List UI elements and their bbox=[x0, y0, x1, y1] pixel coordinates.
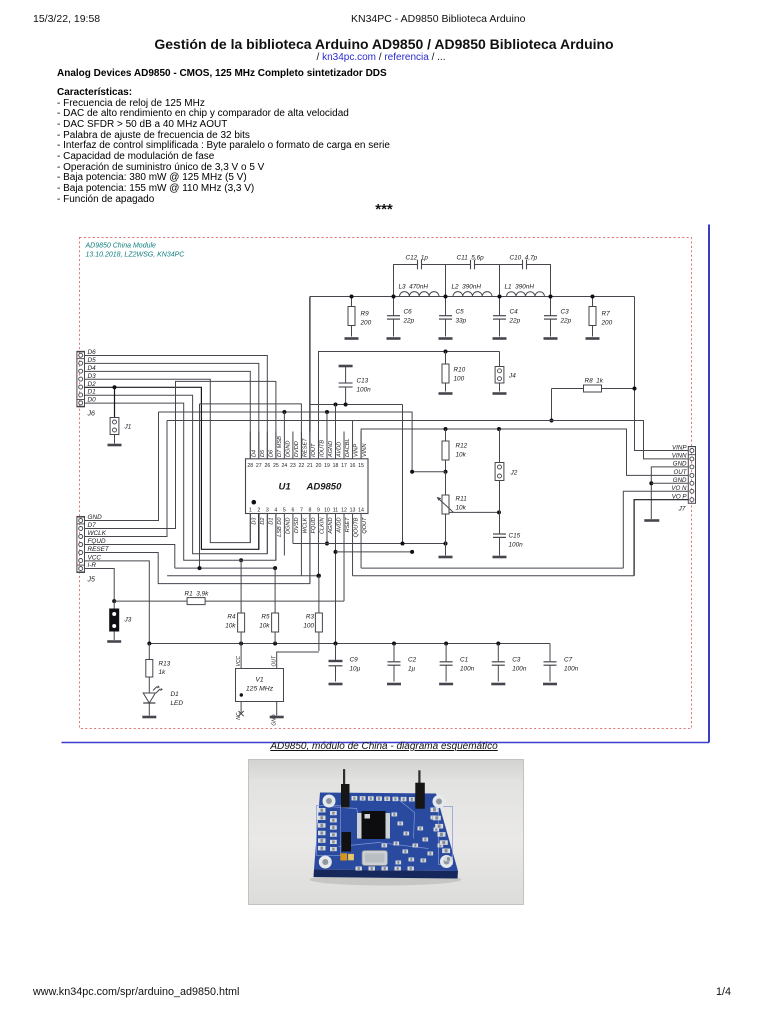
ground below C9 bbox=[329, 683, 343, 686]
connector J6 bbox=[77, 351, 85, 407]
resistor R7 bbox=[592, 297, 594, 307]
svg-text:FQUD: FQUD bbox=[311, 518, 317, 534]
svg-text:RESET: RESET bbox=[302, 438, 308, 457]
op-amp U1 AD9850 body bbox=[246, 459, 369, 514]
svg-text:I-R: I-R bbox=[88, 562, 97, 569]
inductor L2 bbox=[453, 292, 492, 297]
crystal oscillator bbox=[362, 851, 388, 866]
svg-text:1k: 1k bbox=[159, 669, 167, 676]
svg-text:24: 24 bbox=[281, 463, 287, 469]
svg-text:100n: 100n bbox=[564, 666, 579, 673]
svg-text:J3: J3 bbox=[124, 617, 132, 624]
svg-text:27: 27 bbox=[256, 463, 262, 469]
potentiometer R11 bbox=[442, 495, 449, 514]
wire D1 bbox=[85, 395, 268, 554]
svg-text:R1 3,9k: R1 3,9k bbox=[185, 591, 210, 598]
svg-text:R10: R10 bbox=[454, 367, 466, 374]
svg-text:GND: GND bbox=[88, 514, 103, 521]
capacitor C2 bbox=[393, 644, 395, 662]
svg-text:13: 13 bbox=[350, 508, 356, 514]
svg-text:R3: R3 bbox=[306, 614, 315, 621]
svg-text:10k: 10k bbox=[456, 452, 467, 459]
svg-text:R8 1k: R8 1k bbox=[585, 378, 604, 385]
svg-text:L3 470nH: L3 470nH bbox=[399, 284, 429, 291]
svg-text:10: 10 bbox=[324, 508, 330, 514]
svg-text:100: 100 bbox=[303, 623, 314, 630]
svg-text:10k: 10k bbox=[225, 623, 236, 630]
orange capacitors bbox=[340, 853, 347, 860]
ground below C1 bbox=[439, 683, 453, 686]
svg-text:D5: D5 bbox=[88, 357, 97, 364]
svg-text:R12: R12 bbox=[456, 443, 468, 450]
wire VO N right segment (QOUT) bbox=[361, 567, 623, 569]
wire RESET bbox=[85, 514, 310, 584]
svg-text:D7 MSB: D7 MSB bbox=[277, 436, 283, 457]
svg-text:D7: D7 bbox=[88, 522, 97, 529]
svg-text:9: 9 bbox=[317, 508, 320, 514]
svg-text:VINN: VINN bbox=[672, 453, 687, 460]
capacitor C3 (bypass) bbox=[497, 644, 499, 662]
left pin header base bbox=[341, 784, 350, 808]
capacitor C5 bbox=[445, 297, 447, 316]
svg-text:D1: D1 bbox=[268, 518, 274, 525]
resistor R13 bbox=[148, 644, 150, 660]
wire D6 bbox=[85, 356, 268, 459]
svg-text:10k: 10k bbox=[259, 623, 270, 630]
red dashed schematic border bbox=[80, 238, 692, 729]
wire VO P left segment bbox=[167, 575, 319, 577]
svg-text:5: 5 bbox=[283, 508, 286, 514]
ground for J7 bbox=[644, 519, 659, 522]
svg-text:100n: 100n bbox=[512, 666, 527, 673]
capacitor C9 (polarized) bbox=[335, 644, 337, 661]
svg-text:21: 21 bbox=[307, 463, 313, 469]
svg-text:100: 100 bbox=[454, 376, 465, 383]
ground below LED bbox=[142, 716, 156, 719]
ground below R11 column bbox=[445, 544, 447, 556]
rail junction dots bbox=[350, 295, 354, 299]
svg-text:LSB D0: LSB D0 bbox=[277, 517, 283, 537]
resistor R8 bbox=[552, 388, 584, 390]
svg-text:RESET: RESET bbox=[88, 546, 110, 553]
capacitor C7 bbox=[549, 644, 551, 662]
wire W1 y404 bbox=[310, 404, 403, 406]
svg-text:19: 19 bbox=[324, 463, 330, 469]
SMD pads pattern bbox=[318, 808, 326, 812]
wire VO N to J7 bbox=[623, 491, 688, 568]
wire GND J5 bbox=[85, 412, 159, 521]
wire WCLK bbox=[85, 421, 168, 537]
inductor L3 bbox=[400, 292, 440, 297]
wire J7 GND pin3 bbox=[651, 467, 688, 519]
svg-text:7: 7 bbox=[300, 508, 303, 514]
capacitor C12 bbox=[394, 265, 418, 297]
subtitle bold bbox=[57, 68, 387, 79]
svg-text:1: 1 bbox=[249, 508, 252, 514]
wire: IOUTB net y351 bbox=[319, 352, 500, 459]
svg-text:18: 18 bbox=[333, 463, 339, 469]
V1 GND pin bbox=[276, 702, 278, 716]
LED D1 bbox=[148, 677, 150, 693]
ground below C6 bbox=[387, 337, 401, 340]
wire W2 y412 bbox=[159, 412, 413, 472]
svg-text:C11 5,6p: C11 5,6p bbox=[457, 255, 485, 262]
svg-text:100n: 100n bbox=[460, 666, 475, 673]
V1 NC pin with X bbox=[240, 702, 242, 713]
ground below C2 bbox=[387, 683, 401, 686]
svg-text:22p: 22p bbox=[560, 318, 572, 325]
svg-text:L1 390nH: L1 390nH bbox=[505, 284, 535, 291]
svg-text:AVDD: AVDD bbox=[337, 442, 343, 458]
wire I-R bbox=[85, 569, 115, 602]
svg-text:DVSD: DVSD bbox=[294, 518, 300, 534]
svg-text:J5: J5 bbox=[87, 577, 96, 584]
ground below C5 bbox=[439, 337, 453, 340]
supply rail y643 bbox=[149, 643, 550, 645]
svg-text:D5: D5 bbox=[260, 449, 266, 457]
svg-text:D3: D3 bbox=[88, 373, 97, 380]
wire VO N left segment (FQUD wrap) bbox=[175, 567, 275, 569]
blue page frame bbox=[708, 225, 710, 743]
wire FQUD bbox=[85, 545, 175, 569]
svg-text:C13: C13 bbox=[357, 378, 369, 385]
ground below C4 bbox=[493, 337, 507, 340]
connector J5 bbox=[77, 517, 85, 573]
svg-text:AGND: AGND bbox=[328, 518, 334, 535]
svg-text:D1: D1 bbox=[88, 389, 97, 396]
svg-text:QOUTB: QOUTB bbox=[354, 517, 360, 537]
VO N via y403 row to pin22 bbox=[199, 404, 201, 568]
svg-text:U1: U1 bbox=[279, 482, 291, 493]
svg-text:D6: D6 bbox=[268, 449, 274, 457]
wire D0 bbox=[85, 403, 276, 560]
svg-text:DVDD: DVDD bbox=[294, 441, 300, 457]
wire W1 down right of U1 bbox=[402, 405, 404, 544]
svg-text:R5: R5 bbox=[261, 614, 270, 621]
connector J7 bbox=[688, 447, 695, 504]
svg-text:2: 2 bbox=[257, 508, 260, 514]
svg-text:VINP: VINP bbox=[672, 444, 687, 451]
corner screw holes bbox=[323, 795, 336, 808]
wire R3 to V1 OUT bbox=[277, 652, 319, 669]
svg-text:CLKIN: CLKIN bbox=[319, 517, 325, 534]
svg-text:DGND: DGND bbox=[285, 518, 291, 534]
svg-text:R11: R11 bbox=[456, 496, 468, 503]
wire y551 bbox=[336, 551, 413, 553]
svg-text:C12 1p: C12 1p bbox=[406, 255, 429, 262]
capacitor C15 bbox=[499, 512, 501, 533]
svg-text:3: 3 bbox=[266, 508, 269, 514]
svg-text:100n: 100n bbox=[509, 542, 524, 549]
wire W3 y420 bbox=[167, 421, 689, 459]
svg-text:J7: J7 bbox=[678, 506, 686, 513]
wire D4 bbox=[85, 371, 251, 458]
wire VCC bbox=[85, 561, 150, 644]
resistor R10 bbox=[445, 352, 447, 365]
wire D3 bbox=[85, 379, 251, 542]
svg-text:FQUD: FQUD bbox=[88, 538, 106, 545]
svg-text:8: 8 bbox=[308, 508, 311, 514]
svg-text:23: 23 bbox=[290, 463, 296, 469]
svg-text:VINN: VINN bbox=[362, 443, 368, 457]
ground below R10 bbox=[439, 392, 453, 395]
svg-text:IOUT: IOUT bbox=[311, 443, 317, 457]
svg-text:OUT: OUT bbox=[272, 655, 278, 667]
capacitor C6 bbox=[393, 297, 395, 316]
svg-text:6: 6 bbox=[291, 508, 294, 514]
wire VO P right segment (QOUTB) bbox=[353, 575, 635, 577]
svg-text:C9: C9 bbox=[350, 657, 359, 664]
photo of AD9850 module bbox=[249, 760, 524, 905]
wire: filter output rail bbox=[310, 296, 635, 298]
features list bbox=[57, 88, 390, 205]
wire D5 bbox=[85, 363, 259, 458]
ground below C3 bbox=[544, 337, 558, 340]
ground below R9 bbox=[345, 337, 359, 340]
svg-text:VCC: VCC bbox=[236, 656, 242, 667]
svg-text:D3: D3 bbox=[251, 517, 257, 525]
svg-text:C4: C4 bbox=[510, 309, 519, 316]
svg-text:IOUTB: IOUTB bbox=[319, 440, 325, 457]
svg-text:16: 16 bbox=[350, 463, 356, 469]
svg-text:D1: D1 bbox=[171, 691, 180, 698]
resistor R9 bbox=[351, 297, 353, 307]
svg-text:VINP: VINP bbox=[354, 444, 360, 457]
svg-text:V1: V1 bbox=[255, 677, 264, 684]
svg-text:14: 14 bbox=[358, 508, 364, 514]
svg-text:AVDD: AVDD bbox=[337, 518, 343, 534]
svg-text:22p: 22p bbox=[403, 318, 415, 325]
LED arrows bbox=[153, 687, 160, 694]
ground below J1 bbox=[108, 444, 122, 447]
svg-text:DGND: DGND bbox=[285, 441, 291, 457]
caption bbox=[0, 741, 768, 752]
black jumper bbox=[342, 832, 352, 852]
svg-text:22p: 22p bbox=[509, 318, 521, 325]
svg-text:QOUT: QOUT bbox=[362, 517, 368, 534]
capacitor C1 bbox=[445, 644, 447, 662]
svg-text:R4: R4 bbox=[227, 614, 236, 621]
svg-text:17: 17 bbox=[341, 463, 347, 469]
link line bbox=[0, 52, 762, 63]
IC chip with pins bbox=[357, 813, 362, 839]
U1 pin1 dot bbox=[252, 500, 257, 505]
inductor L1 bbox=[507, 292, 545, 297]
wire: rail to J7 VINP bbox=[635, 297, 689, 451]
wire D2 bbox=[85, 387, 259, 549]
capacitor C13 (ground on top) bbox=[339, 365, 353, 368]
svg-text:DACBL: DACBL bbox=[345, 438, 351, 457]
svg-text:200: 200 bbox=[360, 320, 372, 327]
svg-text:C3: C3 bbox=[512, 657, 521, 664]
ground below J3 bbox=[107, 640, 121, 643]
svg-text:AGND: AGND bbox=[328, 441, 334, 458]
svg-text:1µ: 1µ bbox=[408, 666, 416, 673]
capacitor C3 (filter) bbox=[550, 297, 552, 316]
svg-text:22: 22 bbox=[299, 463, 305, 469]
right pin header base bbox=[415, 783, 425, 809]
wire J7 GND pin5 bbox=[651, 482, 688, 484]
svg-text:12: 12 bbox=[341, 508, 347, 514]
svg-text:OUT: OUT bbox=[673, 469, 687, 476]
board shadow bbox=[310, 874, 462, 886]
separator stars bbox=[0, 201, 768, 218]
svg-text:D6: D6 bbox=[88, 349, 97, 356]
svg-text:200: 200 bbox=[601, 320, 613, 327]
wire QOUT y543 bbox=[293, 543, 446, 545]
ground below C3b bbox=[491, 683, 505, 686]
oscillator V1 bbox=[236, 669, 284, 702]
svg-text:10µ: 10µ bbox=[350, 666, 361, 673]
svg-text:J1: J1 bbox=[124, 424, 132, 431]
ground below C7 bbox=[543, 683, 557, 686]
svg-text:AD9850: AD9850 bbox=[306, 482, 343, 493]
pin header pins (thin) bbox=[343, 769, 345, 785]
svg-text:100n: 100n bbox=[357, 387, 372, 394]
svg-text:C10 4,7p: C10 4,7p bbox=[510, 255, 538, 262]
svg-text:J2: J2 bbox=[510, 470, 518, 477]
svg-text:WCLK: WCLK bbox=[302, 517, 308, 533]
footer page number bbox=[705, 986, 731, 998]
connector J2 bbox=[499, 429, 501, 463]
resistor R4 bbox=[240, 560, 242, 613]
capacitor C4 bbox=[499, 297, 501, 316]
svg-text:D4: D4 bbox=[251, 450, 257, 457]
U1 bottom pin stubs and labels bbox=[249, 514, 251, 543]
wire: R8 left down bbox=[551, 389, 553, 421]
svg-text:D0: D0 bbox=[88, 397, 97, 404]
svg-text:33p: 33p bbox=[456, 318, 467, 325]
U1 top pin stubs and labels bbox=[249, 432, 251, 459]
svg-text:125 MHz: 125 MHz bbox=[246, 686, 274, 693]
svg-text:28: 28 bbox=[247, 463, 253, 469]
ground below J4 bbox=[493, 392, 507, 395]
svg-text:J4: J4 bbox=[508, 373, 516, 380]
resistor R12 bbox=[445, 429, 447, 441]
connector J1 bbox=[113, 385, 117, 389]
svg-text:AD9850 China Module: AD9850 China Module bbox=[85, 243, 157, 250]
svg-text:26: 26 bbox=[264, 463, 270, 469]
header date bbox=[33, 13, 100, 25]
header doc title bbox=[351, 13, 526, 25]
svg-text:13.10.2018, LZ2WSG, KN34PC: 13.10.2018, LZ2WSG, KN34PC bbox=[86, 252, 186, 259]
page title bbox=[0, 36, 768, 52]
footer url bbox=[33, 986, 239, 998]
connector J4 bbox=[495, 367, 504, 384]
svg-text:L2 390nH: L2 390nH bbox=[452, 284, 482, 291]
svg-text:D2: D2 bbox=[260, 517, 266, 525]
resistor R3 bbox=[318, 576, 320, 613]
svg-text:25: 25 bbox=[273, 463, 279, 469]
wire D7 bbox=[85, 381, 276, 528]
PCB silk lines bbox=[328, 807, 359, 816]
connector J3 (filled) bbox=[113, 601, 115, 608]
svg-text:C1: C1 bbox=[460, 657, 469, 664]
svg-text:11: 11 bbox=[333, 508, 338, 514]
svg-text:15: 15 bbox=[358, 463, 364, 469]
svg-text:C6: C6 bbox=[404, 309, 413, 316]
svg-text:R7: R7 bbox=[602, 311, 611, 318]
PCB board top face bbox=[314, 793, 458, 872]
wire: VINN pin to J7 OUT bbox=[361, 429, 688, 475]
wire mid y471 bbox=[412, 471, 445, 473]
svg-text:D4: D4 bbox=[88, 365, 97, 372]
svg-text:10k: 10k bbox=[456, 505, 467, 512]
svg-text:R13: R13 bbox=[159, 661, 171, 668]
svg-text:C15: C15 bbox=[509, 533, 521, 540]
svg-text:C7: C7 bbox=[564, 657, 573, 664]
ground below C15 bbox=[493, 556, 507, 559]
resistor R1 bbox=[112, 599, 116, 603]
svg-text:J6: J6 bbox=[87, 411, 96, 418]
svg-text:C2: C2 bbox=[408, 657, 417, 664]
svg-text:4: 4 bbox=[274, 508, 277, 514]
capacitor C10 bbox=[500, 265, 523, 297]
wire VO P to J7 (dark) bbox=[634, 500, 688, 576]
ground below R7 bbox=[586, 337, 600, 340]
svg-text:R9: R9 bbox=[361, 311, 370, 318]
svg-text:C3: C3 bbox=[561, 309, 570, 316]
svg-text:20: 20 bbox=[316, 463, 322, 469]
wire: IOUT column to filter bbox=[309, 297, 311, 459]
capacitor C11 bbox=[446, 265, 471, 297]
svg-text:WCLK: WCLK bbox=[88, 530, 107, 537]
svg-text:C5: C5 bbox=[456, 309, 465, 316]
resistor R5 bbox=[274, 568, 276, 613]
svg-text:VCC: VCC bbox=[88, 554, 102, 561]
svg-text:LED: LED bbox=[171, 700, 184, 707]
svg-text:RSET: RSET bbox=[345, 517, 351, 533]
